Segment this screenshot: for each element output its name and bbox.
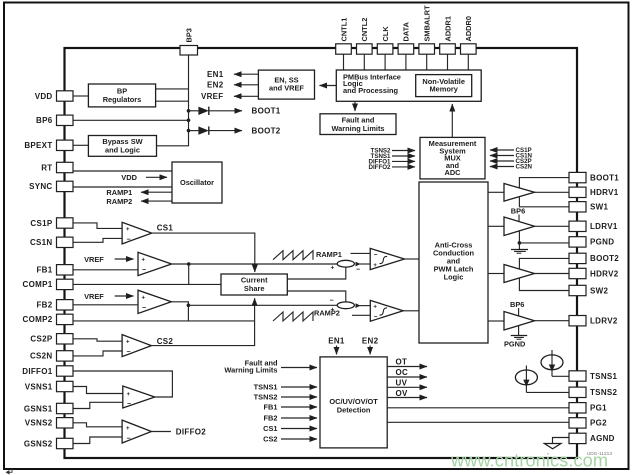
svg-text:+: + — [126, 227, 130, 233]
svg-text:CNTL1: CNTL1 — [339, 18, 348, 42]
wire CS2N to CS2 amp — [73, 351, 122, 356]
pin AGND — [569, 433, 586, 443]
svg-text:BP6: BP6 — [511, 207, 525, 216]
op-amp error amp 1 — [138, 252, 172, 275]
svg-text:CS1P: CS1P — [30, 219, 52, 228]
svg-text:BOOT1: BOOT1 — [590, 173, 619, 182]
svg-text:DIFFO2: DIFFO2 — [368, 164, 391, 171]
svg-text:−: − — [127, 401, 131, 408]
wire BP6 to BP3 bus — [73, 119, 189, 121]
svg-text:CS1: CS1 — [263, 424, 277, 433]
wire diff amp 1 to DIFFO1 pin — [73, 371, 172, 397]
svg-text:+: + — [373, 263, 377, 269]
pin SYNC — [57, 181, 74, 191]
svg-text:VDD: VDD — [35, 92, 53, 101]
ground under T2 — [518, 231, 520, 249]
driver T2 LDRV1 — [504, 217, 535, 236]
block Measurement System MUX and ADC — [420, 137, 485, 179]
wire AGND ground — [553, 438, 570, 444]
svg-text:VSNS1: VSNS1 — [25, 382, 53, 391]
wire diode D1 to BOOT1 — [209, 110, 242, 112]
driver T4 LDRV2 — [504, 312, 535, 331]
svg-text:CS2: CS2 — [157, 337, 174, 346]
wire VDD to BP Regulators — [73, 95, 88, 97]
svg-text:LDRV1: LDRV1 — [590, 222, 618, 231]
svg-text:BOOT1: BOOT1 — [252, 107, 281, 116]
svg-text:BP6: BP6 — [510, 300, 524, 309]
ramp RAMP1 sawtooth — [273, 251, 313, 260]
svg-text:Oscillator: Oscillator — [180, 178, 214, 187]
svg-text:VREF: VREF — [84, 255, 104, 264]
svg-text:−: − — [127, 349, 131, 356]
svg-text:Logic: Logic — [444, 273, 464, 282]
svg-text:ADDR1: ADDR1 — [443, 16, 452, 41]
comparator PWM comp 2 — [370, 300, 403, 321]
current source I2 — [525, 366, 527, 393]
wire diode D2 to BOOT2 — [209, 130, 242, 132]
pin PGND — [569, 237, 586, 247]
svg-text:−: − — [142, 267, 146, 274]
wire EA2 to summing node 2 — [188, 304, 337, 306]
svg-text:VDD: VDD — [121, 173, 137, 182]
svg-text:CS2: CS2 — [263, 435, 277, 444]
svg-text:CS1N: CS1N — [30, 238, 53, 247]
svg-text:FB2: FB2 — [264, 414, 278, 423]
svg-text:−: − — [142, 305, 146, 312]
ground AGND symbol — [544, 444, 561, 449]
svg-text:+: + — [142, 296, 146, 302]
svg-text:FB1: FB1 — [36, 266, 52, 275]
pin GSNS1 — [57, 403, 74, 413]
pin SMBALRT — [419, 44, 435, 54]
driver T3 HDRV2 — [504, 265, 535, 283]
block PMBus Interface Logic and Processing — [336, 70, 481, 101]
wire VSNS2 to diff amp 2 — [73, 423, 122, 427]
pin LDRV2 — [569, 316, 586, 326]
pin ADDR1 — [440, 44, 456, 54]
wire TSNS1 into MUX — [392, 155, 415, 157]
op-amp differential amp 1 — [123, 386, 155, 408]
wire BP Regulators tap 2 — [156, 100, 189, 102]
block Non-Volatile Memory — [416, 75, 472, 97]
node junction diode2 — [187, 129, 191, 133]
wire TSNS2 into MUX — [392, 150, 415, 152]
wire FB1 to EA1 — [73, 269, 138, 271]
svg-text:LDRV2: LDRV2 — [590, 317, 618, 326]
pin DATA — [398, 44, 414, 54]
svg-text:UV: UV — [396, 379, 408, 388]
pin LDRV1 — [569, 221, 586, 231]
svg-text:SW1: SW1 — [590, 203, 608, 212]
pin FB1 — [57, 265, 74, 275]
svg-text:COMP2: COMP2 — [23, 315, 53, 324]
wire CS2P to CS2 amp — [73, 339, 122, 341]
wire CS2N into MUX — [490, 166, 514, 168]
pin RT — [57, 162, 74, 172]
wire I2 to TSNS2 — [526, 391, 569, 393]
svg-text:VREF: VREF — [201, 92, 224, 101]
svg-text:PGND: PGND — [504, 339, 526, 348]
svg-text:PG1: PG1 — [590, 404, 607, 413]
wire I1 to TSNS1 — [552, 375, 569, 377]
wire anti-cross to driver 2 — [488, 225, 504, 227]
op-amp error amp 2 — [138, 290, 171, 313]
node junction BP6 — [187, 119, 191, 123]
svg-text:GSNS1: GSNS1 — [24, 404, 53, 413]
block Oscillator — [172, 162, 222, 203]
svg-text:+: + — [126, 426, 130, 432]
wire EA1 output — [172, 263, 338, 265]
wire EN1 — [234, 73, 258, 75]
svg-text:SMBALRT: SMBALRT — [423, 5, 432, 42]
wire PG2 — [387, 421, 569, 423]
svg-text:ADC: ADC — [444, 168, 461, 177]
wire COMP1 branch — [188, 264, 190, 284]
svg-text:CS2N: CS2N — [516, 164, 533, 171]
pin CNTL2 — [357, 44, 373, 54]
svg-text:−: − — [374, 313, 378, 320]
block Fault and Warning Limits — [320, 114, 396, 135]
wire CS2P into MUX — [490, 160, 514, 162]
svg-text:+: + — [126, 340, 130, 346]
pin COMP2 — [57, 314, 74, 324]
wire RAMP2 to PWM comp 2 — [352, 314, 370, 316]
wire VSNS1 to diff amp 1 — [73, 387, 123, 394]
wire EA2 output — [171, 302, 188, 321]
wire RAMP1 out of oscillator — [141, 191, 172, 193]
pin BP3 — [180, 46, 198, 56]
svg-text:CS2P: CS2P — [30, 335, 52, 344]
wire BOOT2 to T3 — [519, 258, 569, 269]
svg-text:+: + — [127, 392, 131, 398]
svg-text:CLK: CLK — [381, 26, 390, 42]
svg-text:PGND: PGND — [590, 238, 614, 247]
svg-text:−: − — [330, 298, 334, 305]
pin FB2 — [57, 300, 74, 310]
summing node 2 — [337, 302, 354, 309]
svg-text:TSNS1: TSNS1 — [254, 383, 278, 392]
pin VDD — [57, 91, 74, 101]
wire CS1N to CS1 amp — [73, 238, 122, 242]
pin VSNS1 — [57, 381, 74, 391]
wire BOOT1 to T1 — [519, 178, 569, 188]
svg-text:Warning Limits: Warning Limits — [331, 124, 384, 133]
pin CS1P — [57, 218, 74, 228]
wire CS1P into MUX — [490, 149, 514, 151]
comparator PWM comp 1 — [370, 248, 404, 269]
svg-text:−: − — [374, 251, 378, 258]
wire GSNS1 to diff amp 1 — [73, 402, 123, 408]
node EA1 output — [187, 262, 191, 266]
wire anti-cross to driver 1 — [488, 191, 504, 193]
summing node 1 — [337, 260, 354, 267]
svg-text:AGND: AGND — [590, 434, 615, 443]
svg-text:Detection: Detection — [337, 405, 371, 414]
svg-text:−: − — [127, 237, 131, 244]
wire SYNC to Oscillator — [73, 186, 172, 188]
pin HDRV1 — [569, 187, 586, 197]
pin DIFFO1 — [57, 366, 74, 376]
svg-text:−: − — [356, 267, 360, 274]
op-amp CS2 — [122, 335, 151, 357]
svg-text:BP6: BP6 — [36, 116, 53, 125]
pin CLK — [377, 44, 393, 54]
block Current Share — [221, 274, 287, 295]
op-amp CS1 — [122, 222, 152, 244]
svg-text:BPEXT: BPEXT — [24, 141, 52, 150]
svg-text:EN2: EN2 — [362, 337, 379, 346]
driver T1 HDRV1 — [504, 184, 535, 202]
pin PG2 — [569, 418, 586, 428]
wire GSNS2 to diff amp 2 — [73, 437, 122, 444]
svg-text:+: + — [373, 304, 377, 310]
pin GSNS2 — [57, 438, 74, 448]
svg-text:−: − — [127, 436, 131, 443]
pin CS2N — [57, 351, 74, 361]
svg-text:and VREF: and VREF — [269, 84, 304, 93]
pin TSNS1 — [569, 371, 586, 381]
svg-text:CNTL2: CNTL2 — [360, 18, 369, 42]
wire Current Share to summing node 2 — [287, 291, 346, 302]
pin CS2P — [57, 334, 74, 344]
svg-text:RAMP1: RAMP1 — [316, 250, 342, 259]
wire EN2 — [234, 84, 258, 86]
wire RT to Oscillator — [73, 170, 172, 172]
svg-text:OC: OC — [396, 368, 409, 377]
svg-text:EN2: EN2 — [207, 81, 224, 90]
wire summing node 2 to PWM comp 2 — [356, 303, 361, 308]
pin BP6 — [57, 115, 74, 125]
svg-text:DATA: DATA — [402, 21, 411, 41]
svg-text:Warning Limits: Warning Limits — [224, 366, 277, 375]
wire FB2 to EA2 — [73, 304, 138, 306]
svg-text:FB2: FB2 — [36, 301, 52, 310]
block BP Regulators — [88, 84, 155, 107]
svg-text:RT: RT — [41, 163, 52, 172]
diode D2 — [189, 130, 199, 132]
wire DIFFO2 into MUX — [392, 166, 415, 168]
svg-text:and Processing: and Processing — [343, 86, 399, 95]
wire PMBus to Fault limits — [354, 101, 356, 111]
wire Measurement to PMBus — [451, 104, 453, 137]
svg-text:FB1: FB1 — [264, 403, 278, 412]
svg-text:TSNS2: TSNS2 — [590, 388, 618, 397]
svg-text:COMP1: COMP1 — [23, 280, 53, 289]
svg-text:SW2: SW2 — [590, 286, 608, 295]
svg-text:RAMP1: RAMP1 — [106, 188, 132, 197]
ramp RAMP2 sawtooth — [273, 312, 313, 321]
pin SW1 — [569, 202, 586, 212]
pin SW2 — [569, 285, 586, 295]
wire BP Regulators tap 1 — [156, 88, 189, 90]
svg-text:+: + — [142, 258, 146, 264]
wire Current Share to summing node 1 — [287, 267, 346, 279]
svg-text:+: + — [331, 265, 335, 272]
wire CS2 output to Current Share — [151, 298, 254, 345]
svg-text:VSNS2: VSNS2 — [25, 419, 53, 428]
wire COMP2 line — [73, 320, 255, 322]
wire RAMP1 to PWM comp 1 — [351, 252, 371, 254]
svg-text:HDRV1: HDRV1 — [590, 188, 619, 197]
IC boundary — [65, 48, 578, 458]
svg-text:Memory: Memory — [430, 85, 459, 94]
svg-text:VREF: VREF — [84, 292, 104, 301]
wire ground to PGND pin — [519, 242, 569, 244]
pin BPEXT — [57, 140, 74, 150]
svg-text:Share: Share — [244, 284, 265, 293]
pin PG1 — [569, 403, 586, 413]
wire PMBus to EN SS — [320, 85, 337, 87]
corner return glyph — [8, 469, 12, 472]
pin ADDR0 — [461, 44, 477, 54]
svg-text:TSNS2: TSNS2 — [254, 393, 278, 402]
wire comp1 to anti-cross — [405, 258, 420, 260]
pin TSNS2 — [569, 387, 586, 397]
svg-text:www.cntronics.com: www.cntronics.com — [450, 451, 608, 471]
current source I1 — [551, 350, 553, 376]
wire summing node 1 to PWM comp 1 — [356, 262, 361, 267]
pin BOOT2 — [569, 253, 586, 263]
wire comp2 to anti-cross — [403, 310, 419, 312]
svg-text:TSNS1: TSNS1 — [590, 372, 618, 381]
wire CS1N into MUX — [490, 155, 514, 157]
svg-text:OV: OV — [396, 389, 409, 398]
svg-text:RAMP2: RAMP2 — [314, 308, 340, 317]
wire BPEXT to Bypass SW — [73, 144, 88, 146]
op-amp differential amp 2 — [122, 420, 151, 443]
block OC/UV/OV/OT Detection — [320, 357, 387, 448]
wire diff amp 2 output DIFFO2 — [151, 431, 171, 433]
block Bypass SW and Logic — [88, 136, 156, 157]
svg-text:GSNS2: GSNS2 — [24, 439, 53, 448]
pin CS1N — [57, 237, 74, 247]
pin CNTL1 — [336, 44, 352, 54]
svg-text:SYNC: SYNC — [29, 182, 52, 191]
wire SW1 to T1 — [519, 197, 569, 207]
ground under T4 — [518, 326, 520, 336]
svg-text:BOOT2: BOOT2 — [590, 254, 619, 263]
svg-text:PG2: PG2 — [590, 419, 607, 428]
svg-text:EN1: EN1 — [207, 70, 224, 79]
wire COMP1 to Current Share — [73, 283, 221, 285]
wire SW2 to T3 — [519, 278, 569, 291]
wire BP3 vertical bus — [157, 55, 189, 146]
svg-text:CS1: CS1 — [157, 224, 174, 233]
svg-text:BP3: BP3 — [185, 28, 194, 42]
pin HDRV2 — [569, 268, 586, 278]
svg-text:EN1: EN1 — [328, 337, 345, 346]
svg-text:RAMP2: RAMP2 — [106, 197, 132, 206]
diode D1 — [189, 110, 199, 112]
block EN SS and VREF — [258, 70, 314, 99]
pin VSNS2 — [57, 418, 74, 428]
wire VREF out — [234, 95, 258, 97]
wire top pin stubs — [343, 53, 345, 70]
wire PG1 — [387, 407, 569, 409]
wire RAMP2 out of oscillator — [141, 200, 172, 202]
node junction diode1 — [187, 109, 191, 113]
pin BOOT1 right — [569, 172, 586, 182]
svg-text:DIFFO2: DIFFO2 — [176, 428, 206, 437]
svg-text:OT: OT — [396, 358, 408, 367]
svg-text:ADDR0: ADDR0 — [464, 16, 473, 41]
node EA2 output — [187, 304, 191, 308]
svg-text:Regulators: Regulators — [103, 95, 142, 104]
block Anti-Cross Conduction and PWM Latch Logic — [419, 182, 488, 343]
wire CS1P to CS1 amp — [73, 223, 122, 229]
wire anti-cross to driver 4 — [488, 320, 504, 322]
wire CS1 output to Current Share — [152, 233, 255, 272]
svg-text:CS2N: CS2N — [30, 352, 53, 361]
pin COMP1 — [57, 279, 74, 289]
svg-text:and Logic: and Logic — [105, 145, 140, 154]
wire DIFFO1 into MUX — [392, 160, 415, 162]
wire anti-cross to driver 3 — [488, 273, 504, 275]
svg-text:DIFFO1: DIFFO1 — [22, 367, 52, 376]
svg-text:BOOT2: BOOT2 — [252, 127, 281, 136]
svg-text:HDRV2: HDRV2 — [590, 269, 619, 278]
